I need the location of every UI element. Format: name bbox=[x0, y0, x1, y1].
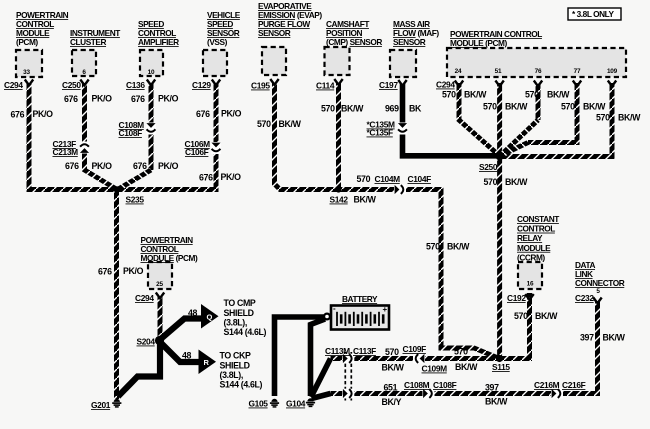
svg-text:48: 48 bbox=[182, 351, 192, 361]
svg-text:C294: C294 bbox=[436, 80, 455, 90]
svg-text:SENSOR: SENSOR bbox=[258, 28, 291, 38]
svg-text:676: 676 bbox=[196, 109, 210, 119]
svg-text:570: 570 bbox=[561, 102, 575, 112]
svg-text:651: 651 bbox=[384, 383, 398, 393]
svg-text:676: 676 bbox=[131, 94, 145, 104]
svg-text:676: 676 bbox=[64, 94, 78, 104]
svg-text:BK/W: BK/W bbox=[447, 242, 470, 252]
svg-text:570: 570 bbox=[483, 102, 497, 112]
svg-text:570: 570 bbox=[454, 347, 468, 357]
svg-text:C113M: C113M bbox=[325, 346, 350, 356]
svg-text:G201: G201 bbox=[91, 400, 111, 410]
svg-text:33: 33 bbox=[23, 69, 30, 76]
svg-text:C294: C294 bbox=[4, 80, 23, 90]
svg-text:BK/W: BK/W bbox=[485, 397, 508, 407]
svg-text:C197: C197 bbox=[379, 80, 398, 90]
svg-text:BK/Y: BK/Y bbox=[382, 397, 402, 407]
svg-text:C108F: C108F bbox=[433, 380, 457, 390]
svg-text:BK/W: BK/W bbox=[505, 102, 528, 112]
svg-text:570: 570 bbox=[257, 119, 271, 129]
svg-text:+: + bbox=[383, 305, 388, 314]
svg-text:676: 676 bbox=[133, 161, 147, 171]
svg-text:PK/O: PK/O bbox=[221, 109, 242, 119]
svg-text:570: 570 bbox=[426, 242, 440, 252]
svg-text:C250: C250 bbox=[62, 80, 81, 90]
svg-text:S144 (4.6L): S144 (4.6L) bbox=[224, 327, 267, 337]
svg-text:BK/W: BK/W bbox=[618, 113, 641, 123]
svg-text:S250: S250 bbox=[479, 162, 498, 172]
svg-text:MODULE (PCM): MODULE (PCM) bbox=[450, 38, 508, 48]
svg-text:676: 676 bbox=[98, 267, 112, 277]
svg-text:BK: BK bbox=[409, 104, 422, 114]
svg-text:570: 570 bbox=[442, 90, 456, 100]
svg-text:BK/W: BK/W bbox=[382, 363, 405, 373]
svg-text:570: 570 bbox=[525, 90, 539, 100]
svg-text:CONSTANT: CONSTANT bbox=[517, 214, 559, 224]
svg-text:Q: Q bbox=[207, 313, 213, 322]
svg-text:C232: C232 bbox=[575, 293, 594, 303]
svg-text:PK/O: PK/O bbox=[221, 172, 242, 182]
svg-text:25: 25 bbox=[156, 281, 163, 288]
svg-text:C195: C195 bbox=[251, 81, 270, 91]
svg-text:C104F: C104F bbox=[408, 174, 432, 184]
svg-text:570: 570 bbox=[357, 174, 371, 184]
svg-text:C136: C136 bbox=[126, 80, 145, 90]
svg-text:S144 (4.6L): S144 (4.6L) bbox=[220, 380, 263, 390]
svg-text:-: - bbox=[333, 304, 336, 313]
svg-text:BATTERY: BATTERY bbox=[342, 294, 378, 304]
svg-text:C129: C129 bbox=[192, 80, 211, 90]
svg-text:CLUSTER: CLUSTER bbox=[70, 37, 106, 47]
svg-text:10: 10 bbox=[148, 69, 155, 76]
svg-text:S115: S115 bbox=[492, 362, 510, 372]
svg-text:C294: C294 bbox=[135, 293, 154, 303]
svg-text:BK/W: BK/W bbox=[279, 119, 302, 129]
svg-text:SHIELD: SHIELD bbox=[220, 361, 250, 371]
svg-text:BK/W: BK/W bbox=[603, 333, 626, 343]
svg-text:C106F: C106F bbox=[185, 147, 209, 157]
svg-text:570: 570 bbox=[484, 177, 498, 187]
svg-text:C192: C192 bbox=[507, 293, 526, 303]
svg-text:RELAY: RELAY bbox=[517, 233, 543, 243]
svg-text:SHIELD: SHIELD bbox=[224, 308, 254, 318]
svg-text:C108M: C108M bbox=[404, 380, 430, 390]
svg-text:BK/W: BK/W bbox=[464, 90, 487, 100]
svg-text:969: 969 bbox=[385, 104, 399, 114]
svg-text:PK/O: PK/O bbox=[33, 109, 54, 119]
svg-text:676: 676 bbox=[65, 161, 79, 171]
svg-text:BK/W: BK/W bbox=[354, 195, 377, 205]
svg-text:C109F: C109F bbox=[403, 344, 427, 354]
svg-text:G104: G104 bbox=[286, 399, 306, 409]
svg-text:MODULE: MODULE bbox=[517, 243, 551, 253]
svg-text:(CMP) SENSOR: (CMP) SENSOR bbox=[326, 37, 382, 47]
svg-text:48: 48 bbox=[188, 308, 198, 318]
svg-text:BK/W: BK/W bbox=[341, 104, 364, 114]
svg-text:TO CMP: TO CMP bbox=[224, 298, 256, 308]
svg-text:S204: S204 bbox=[137, 337, 156, 347]
svg-text:(CCRM): (CCRM) bbox=[517, 252, 545, 262]
svg-text:51: 51 bbox=[495, 68, 502, 75]
svg-text:16: 16 bbox=[527, 281, 534, 288]
svg-text:C216M: C216M bbox=[534, 380, 560, 390]
svg-text:C109M: C109M bbox=[422, 364, 448, 374]
svg-text:(3.8L),: (3.8L), bbox=[220, 370, 243, 380]
svg-text:G105: G105 bbox=[249, 399, 269, 409]
svg-text:PK/O: PK/O bbox=[123, 266, 144, 276]
svg-text:24: 24 bbox=[455, 68, 462, 75]
svg-text:BK/W: BK/W bbox=[583, 102, 606, 112]
svg-text:* 3.8L ONLY: * 3.8L ONLY bbox=[572, 9, 615, 19]
svg-text:676: 676 bbox=[11, 110, 25, 120]
svg-text:SENSOR: SENSOR bbox=[393, 37, 426, 47]
svg-text:BK/W: BK/W bbox=[455, 362, 478, 372]
svg-text:S235: S235 bbox=[126, 195, 145, 205]
svg-text:570: 570 bbox=[321, 104, 335, 114]
svg-text:77: 77 bbox=[574, 68, 581, 75]
svg-text:CONTROL: CONTROL bbox=[517, 224, 555, 234]
svg-text:397: 397 bbox=[580, 333, 594, 343]
svg-text:R: R bbox=[204, 358, 210, 367]
svg-text:BK/W: BK/W bbox=[547, 90, 570, 100]
svg-text:TO CKP: TO CKP bbox=[220, 351, 251, 361]
svg-text:MODULE (PCM): MODULE (PCM) bbox=[141, 253, 199, 263]
svg-text:CONNECTOR: CONNECTOR bbox=[575, 278, 625, 288]
svg-text:BK/W: BK/W bbox=[535, 311, 558, 321]
svg-text:PK/O: PK/O bbox=[158, 161, 179, 171]
svg-text:76: 76 bbox=[535, 68, 542, 75]
svg-text:(3.8L),: (3.8L), bbox=[224, 318, 247, 328]
svg-text:PK/O: PK/O bbox=[158, 94, 179, 104]
svg-text:(VSS): (VSS) bbox=[207, 37, 228, 47]
svg-text:PK/O: PK/O bbox=[92, 161, 113, 171]
svg-text:BK/W: BK/W bbox=[505, 177, 528, 187]
svg-text:C213M: C213M bbox=[53, 147, 79, 157]
svg-text:109: 109 bbox=[607, 68, 618, 75]
svg-text:C108F: C108F bbox=[119, 128, 143, 138]
svg-text:C104M: C104M bbox=[375, 174, 401, 184]
svg-text:570: 570 bbox=[596, 113, 610, 123]
svg-text:C114: C114 bbox=[316, 81, 335, 91]
svg-text:AMPLIFIER: AMPLIFIER bbox=[138, 37, 179, 47]
svg-text:570: 570 bbox=[514, 311, 528, 321]
svg-text:(PCM): (PCM) bbox=[16, 37, 38, 47]
svg-text:C216F: C216F bbox=[562, 380, 586, 390]
svg-text:570: 570 bbox=[385, 347, 399, 357]
svg-text:PK/O: PK/O bbox=[92, 94, 113, 104]
svg-text:397: 397 bbox=[485, 383, 499, 393]
svg-text:676: 676 bbox=[199, 173, 213, 183]
svg-text:*C135F: *C135F bbox=[367, 128, 394, 138]
svg-text:S142: S142 bbox=[330, 195, 349, 205]
svg-text:C113F: C113F bbox=[353, 346, 376, 356]
